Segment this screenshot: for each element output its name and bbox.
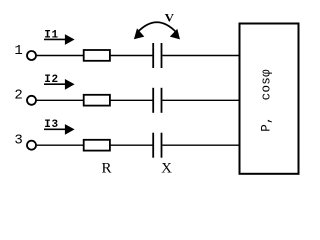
capacitor X row2 left plate <box>152 88 154 113</box>
arrow I1 head <box>65 34 75 45</box>
terminal circle node 2 <box>27 96 36 105</box>
wire row2 left: terminal to resistor <box>37 99 84 101</box>
power meter box P,cos-phi <box>240 24 299 174</box>
svg-text:X: X <box>161 161 172 177</box>
capacitor X row1 left plate <box>152 43 154 68</box>
svg-text:P, cosφ: P, cosφ <box>259 69 273 132</box>
wire row1 right: capacitor to box <box>162 55 239 57</box>
capacitor X row3 right plate <box>161 133 163 158</box>
wire row3 right: capacitor to box <box>162 144 239 146</box>
wire row2 right: capacitor to box <box>162 99 239 101</box>
wire row2 middle: resistor to capacitor <box>110 99 153 101</box>
wire row1 middle: resistor to capacitor <box>110 55 153 57</box>
arrow I3 shaft (underline) <box>44 128 66 130</box>
capacitor X row2 right plate <box>161 88 163 113</box>
voltage arc right arrowhead <box>170 29 180 40</box>
wire row3 left: terminal to resistor <box>37 144 84 146</box>
capacitor X row1 right plate <box>161 43 163 68</box>
wire row1 left: terminal to resistor <box>37 55 84 57</box>
terminal circle node 1 <box>27 51 36 60</box>
resistor R row2 <box>84 95 110 106</box>
svg-text:V: V <box>165 13 175 25</box>
resistor R row1 <box>84 50 110 61</box>
arrow I2 head <box>65 79 75 90</box>
terminal circle node 3 <box>27 141 36 150</box>
arrow I3 head <box>65 124 75 135</box>
svg-text:2: 2 <box>14 88 22 104</box>
svg-text:R: R <box>101 161 111 177</box>
arrow I2 shaft (underline) <box>44 83 66 85</box>
voltage arc left arrowhead <box>134 28 144 39</box>
arrow I1 shaft (underline) <box>44 38 66 40</box>
svg-text:1: 1 <box>14 43 22 59</box>
voltage arc V over capacitor row1 <box>137 22 176 32</box>
capacitor X row3 left plate <box>152 133 154 158</box>
resistor R row3 <box>84 140 110 151</box>
svg-text:3: 3 <box>14 133 22 149</box>
wire row3 middle: resistor to capacitor <box>110 144 153 146</box>
